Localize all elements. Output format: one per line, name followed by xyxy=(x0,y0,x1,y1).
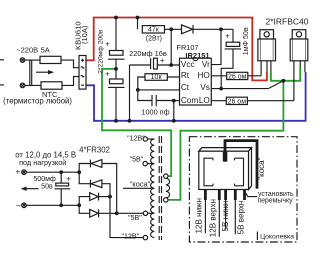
svg-text:Ct: Ct xyxy=(181,83,190,92)
svg-text:"5В": "5В" xyxy=(130,155,144,163)
svg-text:+: + xyxy=(66,175,71,184)
svg-text:1мФ 50в: 1мФ 50в xyxy=(242,27,250,55)
svg-text:Цоколевка: Цоколевка xyxy=(260,234,294,241)
svg-text:LO: LO xyxy=(199,96,210,105)
svg-text:5В верхн: 5В верхн xyxy=(237,201,246,235)
svg-text:2*IRFBC40: 2*IRFBC40 xyxy=(266,16,309,26)
svg-text:"12В": "12В" xyxy=(122,232,140,240)
svg-text:под нагрузкой: под нагрузкой xyxy=(19,158,66,167)
svg-text:(10А): (10А) xyxy=(80,25,89,44)
svg-text:"коса": "коса" xyxy=(257,157,266,179)
svg-text:(термистор любой): (термистор любой) xyxy=(3,96,72,105)
svg-text:26 ом: 26 ом xyxy=(228,74,247,81)
svg-text:"12В": "12В" xyxy=(127,134,145,142)
svg-text:Vs: Vs xyxy=(200,83,210,92)
svg-text:~220В: ~220В xyxy=(16,45,38,54)
svg-text:1000 пф: 1000 пф xyxy=(141,108,169,117)
svg-text:12В верхн: 12В верхн xyxy=(208,199,217,237)
svg-text:Vcc: Vcc xyxy=(181,60,195,69)
svg-text:Vr: Vr xyxy=(202,60,210,69)
svg-text:220мф 16в: 220мф 16в xyxy=(129,49,167,58)
svg-text:10к: 10к xyxy=(151,74,163,81)
svg-text:IR2151: IR2151 xyxy=(185,51,209,60)
svg-text:+: + xyxy=(225,31,230,40)
svg-text:(2Вт): (2Вт) xyxy=(146,36,162,43)
svg-text:HO: HO xyxy=(198,71,210,80)
svg-text:Rt: Rt xyxy=(181,71,190,80)
svg-text:–: – xyxy=(16,201,21,210)
svg-text:+: + xyxy=(15,168,20,177)
svg-text:5А: 5А xyxy=(41,45,50,54)
svg-text:5В нижн: 5В нижн xyxy=(221,200,230,231)
svg-text:Com: Com xyxy=(181,96,198,105)
svg-text:"коса": "коса" xyxy=(130,179,151,188)
svg-text:50в: 50в xyxy=(41,182,53,190)
svg-text:26 ом: 26 ом xyxy=(228,98,247,105)
svg-text:перемычку: перемычку xyxy=(257,198,293,205)
svg-text:+: + xyxy=(105,70,110,79)
svg-text:47к: 47к xyxy=(148,27,160,34)
svg-text:"5В": "5В" xyxy=(128,214,142,222)
svg-text:4*FR302: 4*FR302 xyxy=(79,146,110,155)
svg-text:12В нижн: 12В нижн xyxy=(195,198,204,234)
svg-text:+: + xyxy=(105,40,110,49)
svg-text:2*220мф 200в: 2*220мф 200в xyxy=(98,29,105,74)
